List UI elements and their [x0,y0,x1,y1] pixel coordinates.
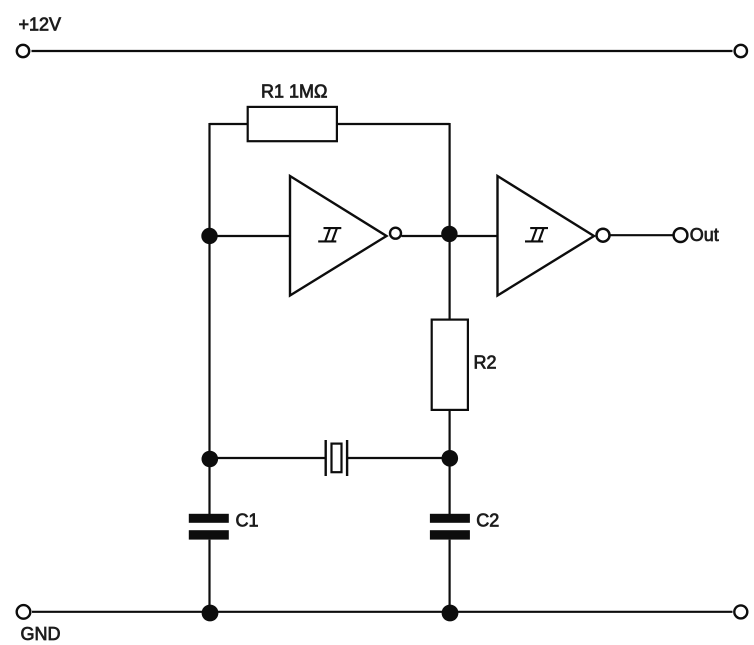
node E junction (C1 to GND) [202,605,219,622]
wire U1B input [450,235,498,237]
node A junction (input node) [201,228,217,244]
wire node B vertical upper (R1 right down to R2 top) [449,123,451,321]
svg-text:+12V: +12V [19,15,62,35]
inverter U1A [290,176,387,296]
wire U1A output to node B [402,235,450,237]
label Out [690,225,719,245]
inverter U1B [498,176,595,296]
wire +12V rail [32,50,733,52]
svg-text:GND: GND [21,624,61,644]
capacitor C2 [430,514,470,540]
node C junction (crystal left) [202,451,219,468]
label GND [21,624,61,644]
hysteresis mark U1A [318,228,341,241]
svg-text:R2: R2 [474,353,497,373]
svg-text:R1 1MΩ: R1 1MΩ [261,82,327,102]
terminal Out [674,228,688,242]
wire C1 bottom to GND rail [208,540,210,612]
resistor R2 [432,320,468,410]
terminal GND right [734,605,747,618]
label C2 [476,510,499,530]
wire U1A input [210,235,291,237]
svg-text:Out: Out [690,225,719,245]
inversion bubble U1B [597,229,610,242]
wire node A vertical (R1 left down to C1) [208,123,210,515]
wire node D down to C2 [449,458,451,515]
terminal +12V right [735,45,747,57]
wire GND rail [32,611,733,613]
resistor R1 [248,107,337,141]
crystal X1 [326,440,347,476]
svg-text:C2: C2 [476,510,499,530]
label R1 1MΩ [261,82,327,102]
svg-text:C1: C1 [236,510,259,530]
wire R1 to node B [337,123,450,125]
inversion bubble U1A [390,228,401,239]
terminal +12V left [17,45,29,57]
label C1 [236,510,259,530]
wire R2 bottom to node D [449,410,451,459]
capacitor C1 [189,514,229,540]
wire U1B output to Out terminal [610,234,673,236]
node F junction (C2 to GND) [442,605,459,622]
node D junction (crystal right) [442,450,459,467]
wire node C to crystal [210,457,326,459]
label +12V [19,15,62,35]
terminal GND left [17,605,31,619]
wire C2 bottom to GND rail [449,540,451,612]
label R2 [474,353,497,373]
wire node A left lead to R1 [210,123,248,125]
wire crystal to node D [347,457,450,459]
node B junction (U1A output) [441,226,457,242]
hysteresis mark U1B [525,228,548,241]
